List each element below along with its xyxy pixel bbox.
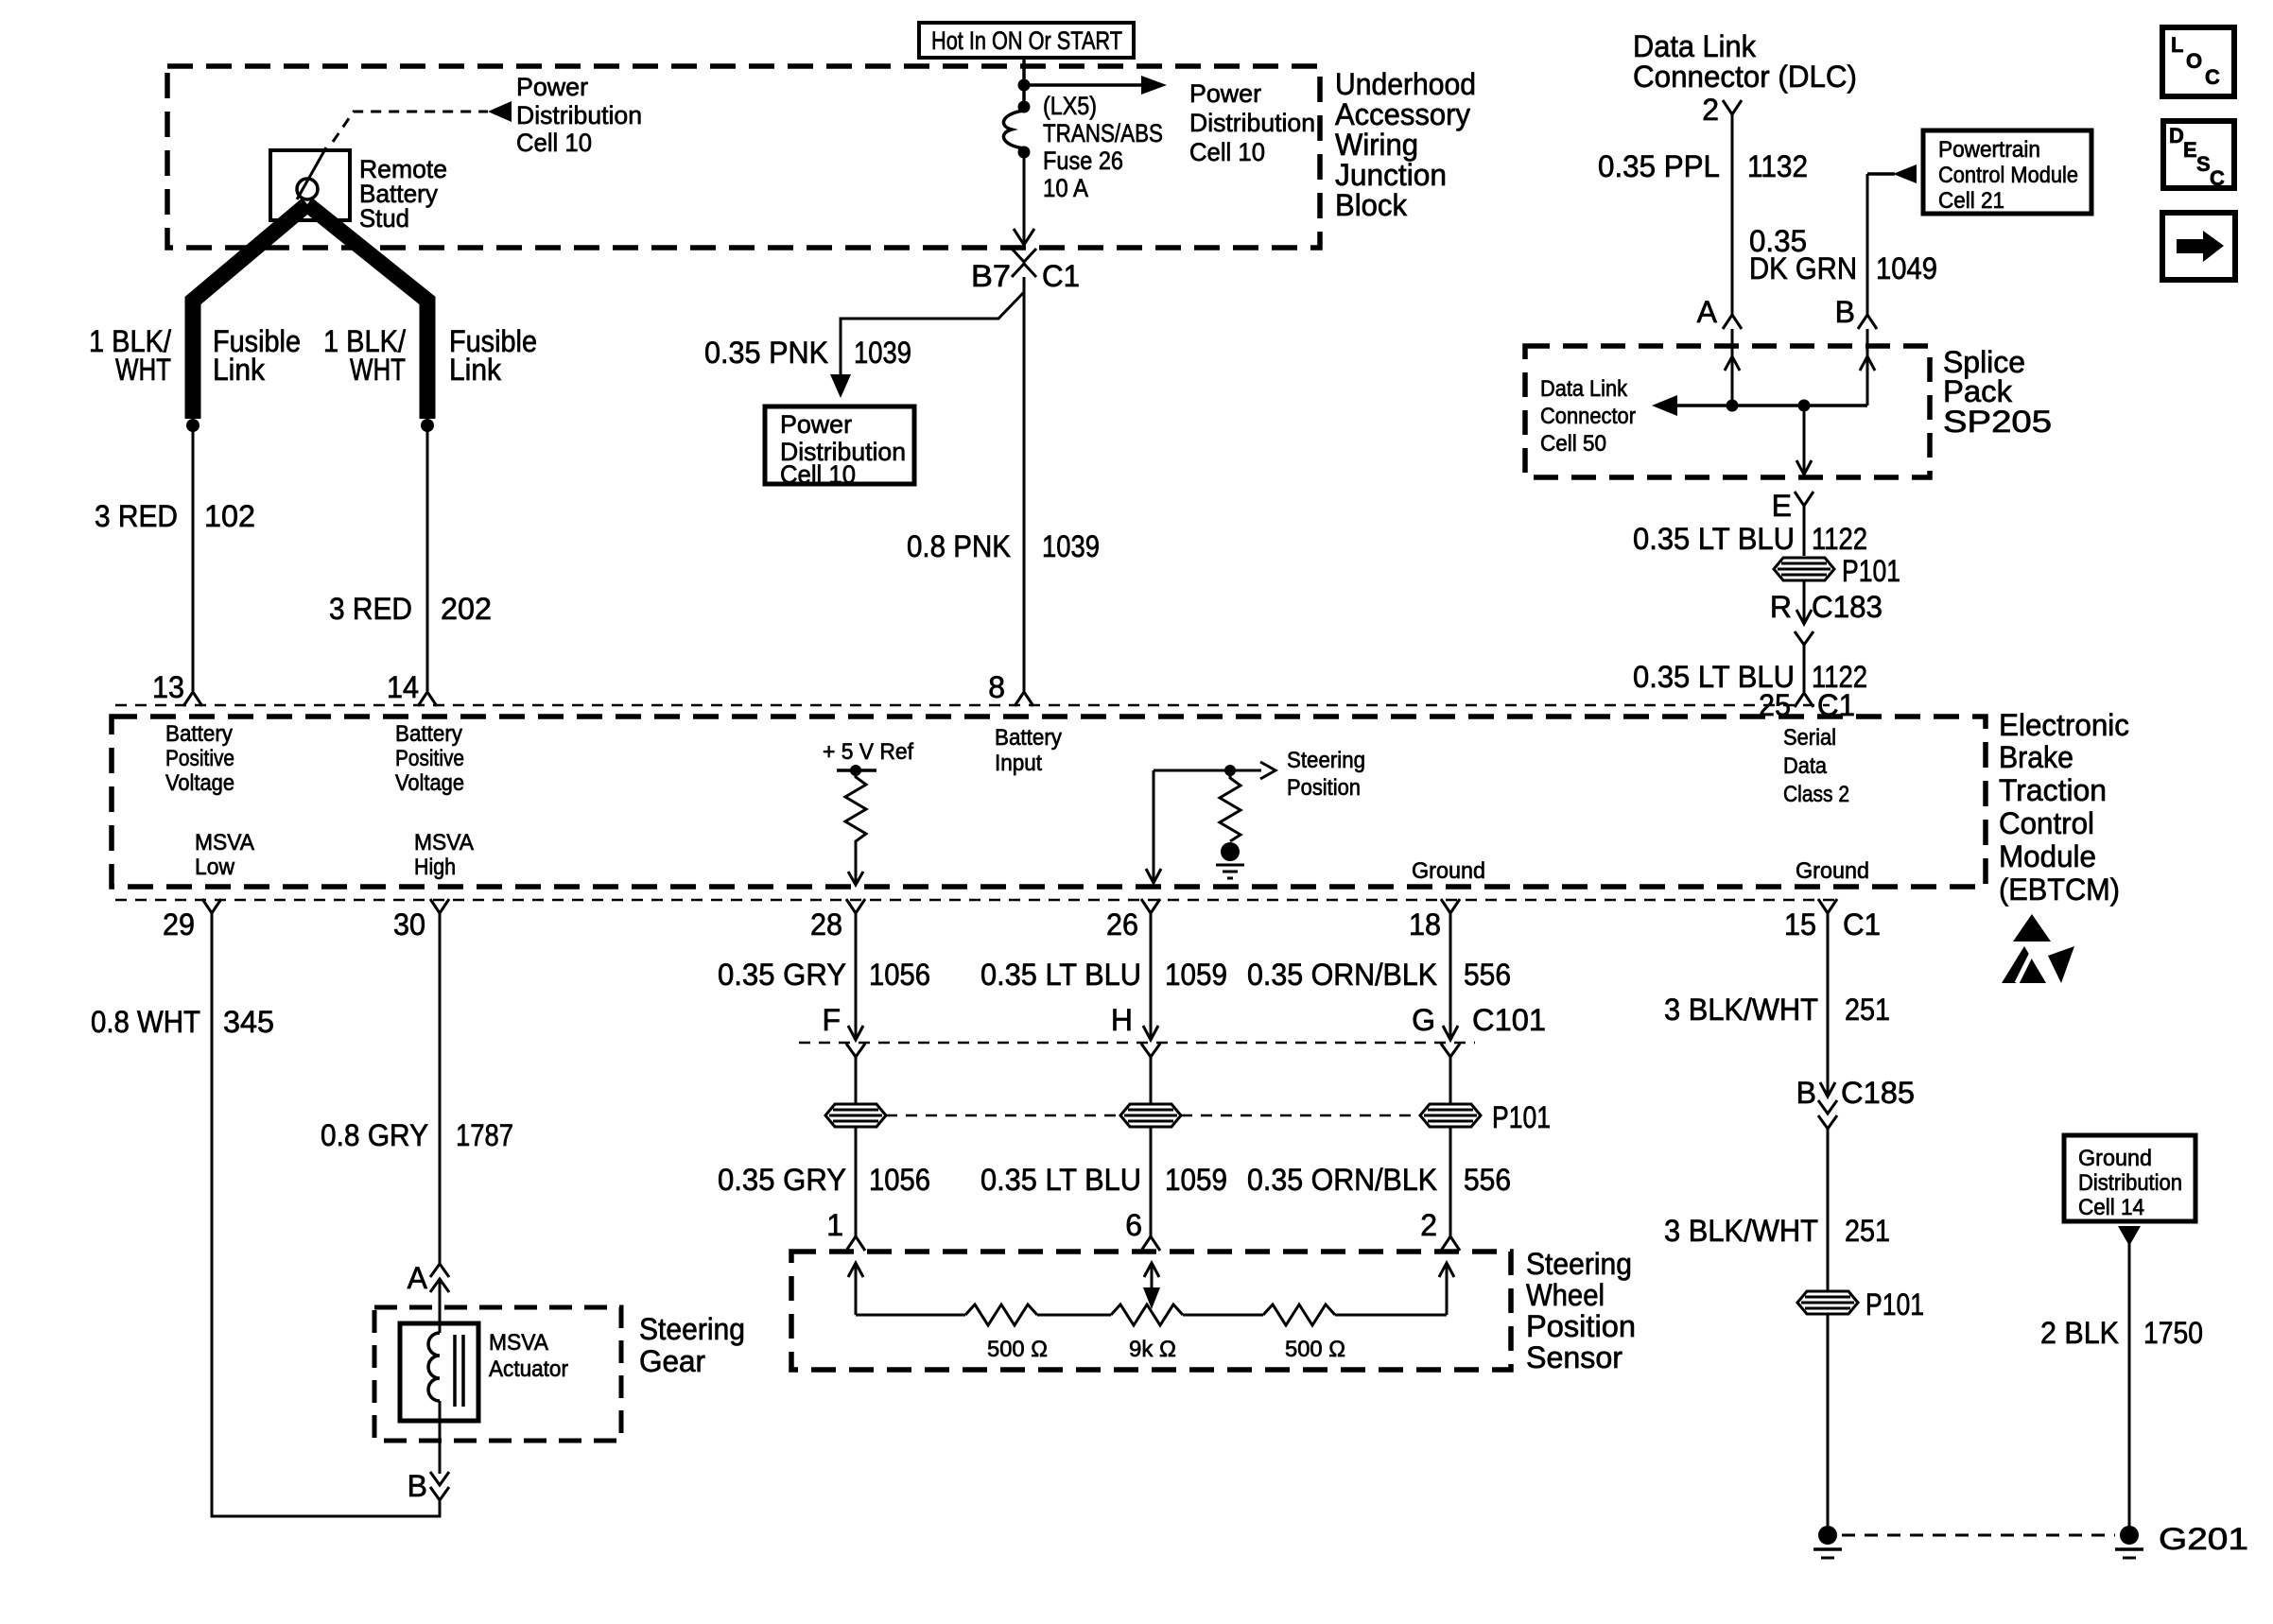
wire A into gear box (439, 1279, 442, 1323)
svg-text:B: B (408, 1469, 427, 1503)
dashed line P101 row (886, 1114, 1120, 1117)
sensor pin 1 (826, 1208, 865, 1251)
svg-text:3 RED: 3 RED (329, 592, 412, 626)
Power Distribution Cell 10 box (765, 406, 914, 489)
svg-text:1049: 1049 (1876, 251, 1937, 285)
svg-text:1750: 1750 (2143, 1316, 2203, 1350)
sensor pin 6 (1125, 1208, 1160, 1251)
wire 15 3 BLK/WHT 251 upper (1827, 913, 1830, 1095)
svg-text:0.8 PNK: 0.8 PNK (907, 529, 1011, 563)
chevron F (846, 1044, 865, 1057)
EBTCM steering position branch (1146, 748, 1365, 883)
svg-text:Wiring: Wiring (1335, 128, 1418, 162)
fusible link right thick (307, 204, 427, 419)
wire 15 3 BLK/WHT 251 lower (1827, 1129, 1830, 1528)
branch wire 0.35 PNK 1039 (704, 292, 1024, 398)
svg-text:202: 202 (441, 592, 492, 626)
svg-text:251: 251 (1845, 1214, 1890, 1248)
MSVA coil (428, 1323, 463, 1421)
svg-text:Power: Power (516, 73, 588, 101)
svg-text:Hot In ON Or START: Hot In ON Or START (931, 26, 1122, 55)
svg-text:Battery: Battery (995, 725, 1062, 751)
Hot In ON Or START tag box (919, 23, 1134, 58)
DESC reference box (2163, 121, 2234, 190)
svg-text:Cell 10: Cell 10 (516, 129, 592, 157)
svg-text:Actuator: Actuator (489, 1356, 568, 1382)
svg-text:Data Link: Data Link (1633, 29, 1757, 63)
svg-text:556: 556 (1464, 1163, 1511, 1197)
EBTCM dashed box (112, 717, 1986, 887)
sensor wire 2 up arrow (1439, 1263, 1454, 1315)
svg-text:0.35 LT BLU: 0.35 LT BLU (980, 1163, 1141, 1197)
svg-text:A: A (408, 1261, 428, 1295)
junction dot left (186, 419, 200, 432)
svg-text:C1: C1 (1843, 907, 1881, 942)
svg-text:1039: 1039 (854, 336, 911, 370)
sensor pin 2 (1420, 1208, 1460, 1251)
chevron H (1141, 1044, 1160, 1057)
svg-text:18: 18 (1409, 907, 1441, 942)
Steering Wheel Position Sensor dashed box (791, 1252, 1511, 1370)
svg-text:0.35 ORN/BLK: 0.35 ORN/BLK (1247, 958, 1437, 992)
svg-text:1056: 1056 (869, 958, 930, 992)
wire 0.35 DK GRN 1049 (1866, 174, 1869, 315)
svg-text:Ground: Ground (1412, 858, 1485, 884)
svg-text:H: H (1111, 1003, 1133, 1037)
svg-text:8: 8 (988, 670, 1005, 704)
P101 grommet H wire (1120, 1104, 1181, 1127)
svg-text:Position: Position (1287, 775, 1361, 801)
svg-text:1056: 1056 (869, 1163, 930, 1197)
svg-text:Data: Data (1783, 753, 1828, 779)
wire 14 vertical (426, 425, 429, 691)
P101 grommet F wire (825, 1104, 886, 1127)
svg-text:S: S (2196, 152, 2211, 176)
EBTCM text Battery Input (995, 725, 1062, 776)
pin 25 C1 (1759, 688, 1855, 722)
splice pack pin A (1697, 295, 1742, 329)
svg-text:251: 251 (1845, 993, 1890, 1027)
svg-text:P101: P101 (1842, 554, 1900, 588)
wire label 3 RED 102 (95, 499, 255, 533)
svg-text:Link: Link (213, 353, 266, 387)
svg-text:Steering: Steering (639, 1312, 745, 1346)
svg-text:A: A (1697, 295, 1718, 329)
svg-text:3 BLK/WHT: 3 BLK/WHT (1664, 1214, 1818, 1248)
EBTCM text Serial Data Class 2 (1783, 725, 1849, 807)
svg-text:Steering: Steering (1526, 1247, 1632, 1281)
wire H pin 26 upper (1150, 913, 1153, 1039)
svg-text:3 RED: 3 RED (95, 499, 178, 533)
pin 18 (1409, 899, 1460, 942)
svg-text:1787: 1787 (456, 1118, 513, 1152)
arrow to Power Distribution Cell 10 right (1024, 76, 1315, 166)
svg-text:Accessory: Accessory (1335, 97, 1470, 131)
wire labels row 2 (718, 1163, 1511, 1197)
svg-text:Cell 21: Cell 21 (1938, 188, 2004, 214)
svg-text:F: F (822, 1003, 841, 1037)
svg-text:MSVA: MSVA (414, 830, 474, 855)
wire 0.35 LT BLU 1122 lower (1803, 645, 1806, 692)
svg-text:Serial: Serial (1783, 725, 1836, 751)
labels fusible links (89, 324, 537, 387)
svg-text:0.35 GRY: 0.35 GRY (718, 1163, 846, 1197)
ground symbol wire 15 (1813, 1526, 1842, 1558)
svg-text:0.35 LT BLU: 0.35 LT BLU (980, 958, 1141, 992)
arrow below Ground Distribution box (2118, 1226, 2141, 1246)
fusible link left thick (193, 204, 307, 419)
EBTCM text MSVA High (414, 830, 474, 880)
svg-text:C183: C183 (1812, 590, 1883, 624)
wire fuse down to junction block edge (1023, 152, 1026, 245)
DLC pin 2 (1702, 93, 1742, 127)
svg-text:26: 26 (1106, 907, 1138, 942)
svg-text:High: High (414, 855, 456, 880)
wire 0.8 PNK down to pin 8 (1023, 277, 1026, 691)
svg-text:0.8 GRY: 0.8 GRY (321, 1118, 428, 1152)
svg-text:WHT: WHT (350, 353, 406, 387)
EBTCM text MSVA Low (195, 830, 254, 880)
C101 dashed line (799, 1042, 1475, 1045)
wire 0.35 LT BLU 1122 upper (1803, 506, 1806, 556)
P101 grommet E wire (1774, 554, 1900, 588)
pin 26 (1106, 899, 1160, 942)
arrow reference box (2162, 213, 2235, 280)
wire 0.35 PPL 1132 (1731, 114, 1734, 315)
svg-text:Junction: Junction (1335, 158, 1447, 192)
P101 grommet wire 15 (1797, 1287, 1924, 1322)
svg-text:1132: 1132 (1747, 149, 1808, 183)
splice text Data Link Connector Cell 50 (1540, 376, 1636, 457)
wire G pin 18 upper (1449, 913, 1452, 1039)
MSVA Actuator box (400, 1323, 568, 1421)
svg-text:9k Ω: 9k Ω (1129, 1337, 1176, 1362)
svg-text:L: L (2171, 33, 2183, 57)
svg-text:O: O (2186, 49, 2202, 73)
svg-text:Stud: Stud (359, 204, 409, 233)
svg-text:Connector (DLC): Connector (DLC) (1633, 60, 1857, 94)
svg-text:Distribution: Distribution (2078, 1170, 2182, 1196)
svg-text:Connector: Connector (1540, 404, 1636, 429)
Underhood Accessory Wiring Junction Block dashed box (167, 66, 1320, 248)
EBTCM text Battery Positive Voltage pin14 (395, 721, 464, 796)
svg-text:Electronic: Electronic (1999, 708, 2129, 742)
connector B7 C1 (971, 249, 1080, 293)
label Underhood Accessory Wiring Junction Block (1335, 67, 1476, 222)
wire B into bus (1860, 329, 1875, 406)
svg-text:1122: 1122 (1812, 660, 1867, 694)
svg-text:(LX5): (LX5) (1043, 92, 1097, 120)
svg-text:B: B (1835, 295, 1855, 329)
label Steering Gear (639, 1312, 745, 1378)
svg-text:0.35 LT BLU: 0.35 LT BLU (1633, 660, 1795, 694)
svg-text:29: 29 (163, 907, 195, 942)
pin 8 (988, 670, 1033, 706)
chevron G (1441, 1044, 1460, 1057)
ESD sensitive symbol (2002, 914, 2074, 983)
svg-text:G201: G201 (2159, 1522, 2248, 1556)
svg-text:2 BLK: 2 BLK (2040, 1316, 2119, 1350)
wire F pin 28 upper (855, 913, 858, 1039)
P101 grommet G wire (1420, 1100, 1551, 1134)
wire from Hot In box to fuse (1022, 58, 1026, 107)
svg-text:Control Module: Control Module (1938, 163, 2078, 188)
svg-text:Data Link: Data Link (1540, 376, 1628, 402)
connector A steering gear (408, 1261, 449, 1295)
pin 29 (163, 899, 221, 942)
svg-text:2: 2 (1420, 1208, 1437, 1242)
svg-text:WHT: WHT (115, 353, 171, 387)
label Steering Wheel Position Sensor (1526, 1247, 1636, 1374)
svg-text:D: D (2169, 124, 2184, 147)
pin 14 (387, 670, 437, 706)
wire label 0.8 PNK 1039 (907, 529, 1100, 563)
pin 13 (152, 670, 202, 706)
wire arrow to PCM (1867, 164, 1917, 183)
pin 30 (393, 899, 449, 942)
svg-text:Powertrain: Powertrain (1938, 137, 2040, 163)
svg-text:345: 345 (223, 1005, 274, 1039)
svg-text:Battery: Battery (165, 721, 233, 747)
svg-text:Control: Control (1999, 806, 2094, 840)
svg-text:Cell 14: Cell 14 (2078, 1195, 2144, 1220)
svg-text:+ 5 V Ref: + 5 V Ref (823, 739, 913, 765)
wire 13 vertical (192, 425, 195, 691)
svg-text:0.35 GRY: 0.35 GRY (718, 958, 846, 992)
LOC reference box (2162, 27, 2234, 96)
svg-text:C101: C101 (1472, 1003, 1546, 1037)
Powertrain Control Module Cell 21 box (1923, 130, 2091, 214)
svg-text:DK GRN: DK GRN (1749, 251, 1857, 285)
svg-text:P101: P101 (1492, 1100, 1551, 1134)
svg-text:C1: C1 (1042, 259, 1080, 293)
svg-text:Input: Input (995, 751, 1042, 776)
junction dot (1018, 79, 1031, 92)
svg-text:Sensor: Sensor (1526, 1340, 1622, 1374)
svg-text:Brake: Brake (1999, 740, 2073, 774)
wire 2 BLK 1750 (2128, 1243, 2131, 1528)
svg-text:Battery: Battery (395, 721, 462, 747)
svg-text:Steering: Steering (1287, 748, 1365, 773)
sensor wire 1 up arrow (848, 1263, 863, 1315)
wires to P101 row (855, 1057, 858, 1104)
svg-text:0.35 LT BLU: 0.35 LT BLU (1633, 522, 1795, 556)
EBTCM internal ground (1216, 842, 1244, 878)
label Data Link Connector DLC (1633, 29, 1857, 94)
fuse 26 TRANS/ABS (1003, 92, 1163, 202)
svg-text:Fuse 26: Fuse 26 (1043, 147, 1123, 175)
svg-text:1122: 1122 (1812, 522, 1867, 556)
splice pin E (1772, 489, 1813, 523)
Steering Gear dashed box (374, 1307, 621, 1441)
svg-text:Ground: Ground (2078, 1146, 2152, 1171)
svg-text:1: 1 (826, 1208, 843, 1242)
svg-text:Underhood: Underhood (1335, 67, 1476, 101)
connector dashed line top C1 (115, 704, 1830, 707)
svg-text:Pack: Pack (1943, 374, 2013, 408)
splice E stem junction (1796, 400, 1812, 475)
connector B steering gear (408, 1469, 449, 1503)
svg-text:Cell 10: Cell 10 (1189, 138, 1265, 166)
svg-text:MSVA: MSVA (489, 1330, 548, 1356)
svg-text:R: R (1770, 590, 1792, 624)
svg-text:TRANS/ABS: TRANS/ABS (1043, 119, 1163, 147)
dashed link to G201 (1842, 1534, 2115, 1537)
splice bus with left arrow (1652, 395, 1867, 416)
svg-text:500 Ω: 500 Ω (987, 1337, 1048, 1362)
svg-text:Ground: Ground (1796, 858, 1869, 884)
svg-text:Distribution: Distribution (516, 101, 642, 130)
ground G201 (2115, 1522, 2248, 1558)
svg-text:14: 14 (387, 670, 419, 704)
svg-text:Positive: Positive (395, 746, 464, 771)
Splice Pack SP205 dashed box (1525, 346, 1930, 477)
svg-text:1059: 1059 (1165, 958, 1227, 992)
svg-text:Position: Position (1526, 1309, 1636, 1343)
svg-text:C: C (2205, 65, 2220, 89)
wire labels row 1 (718, 958, 1511, 992)
wire 30 0.8 GRY 1787 (439, 913, 442, 1265)
svg-text:Low: Low (195, 855, 235, 880)
svg-text:Module: Module (1999, 839, 2096, 873)
svg-text:P101: P101 (1865, 1287, 1924, 1322)
svg-text:102: 102 (204, 499, 255, 533)
svg-text:15: 15 (1784, 907, 1816, 942)
svg-text:30: 30 (393, 907, 425, 942)
svg-text:Positive: Positive (165, 746, 234, 771)
svg-text:10 A: 10 A (1043, 174, 1088, 202)
svg-text:500 Ω: 500 Ω (1285, 1337, 1345, 1362)
resistor chain (856, 1304, 1447, 1325)
Ground Distribution Cell 14 box (2064, 1135, 2195, 1221)
svg-text:Class 2: Class 2 (1783, 782, 1849, 807)
EBTCM 5V Ref resistor (823, 739, 913, 885)
svg-text:Distribution: Distribution (1189, 109, 1315, 137)
svg-text:3 BLK/WHT: 3 BLK/WHT (1664, 993, 1818, 1027)
pin 15 C1 (1784, 899, 1881, 942)
Remote Battery Stud box (270, 147, 447, 233)
wire below MSVA (439, 1421, 442, 1474)
svg-text:Cell 10: Cell 10 (780, 460, 856, 489)
svg-text:0.35 PNK: 0.35 PNK (704, 336, 828, 370)
svg-text:6: 6 (1125, 1208, 1142, 1242)
svg-text:2: 2 (1702, 93, 1719, 127)
svg-text:28: 28 (810, 907, 842, 942)
svg-text:Wheel: Wheel (1526, 1278, 1605, 1312)
connector R C183 (1770, 580, 1883, 645)
svg-text:MSVA: MSVA (195, 830, 254, 855)
dashed pointer to Power Distribution Cell 10 (333, 73, 642, 157)
svg-text:C185: C185 (1841, 1076, 1915, 1110)
svg-text:Power: Power (1189, 79, 1261, 108)
svg-text:SP205: SP205 (1943, 405, 2052, 439)
wire label 3 RED 202 (329, 592, 492, 626)
svg-text:Block: Block (1335, 188, 1408, 222)
svg-text:Gear: Gear (639, 1344, 705, 1378)
pin 28 (810, 899, 865, 942)
wires below P101 row (855, 1127, 858, 1236)
svg-text:0.35 PPL: 0.35 PPL (1598, 149, 1720, 183)
svg-text:0.8 WHT: 0.8 WHT (91, 1005, 200, 1039)
svg-text:E: E (1772, 489, 1792, 523)
svg-text:B: B (1796, 1076, 1816, 1110)
connector B C185 (1796, 1076, 1915, 1129)
svg-text:Power: Power (780, 410, 852, 439)
svg-text:13: 13 (152, 670, 184, 704)
svg-text:Cell 50: Cell 50 (1540, 431, 1606, 457)
svg-text:Voltage: Voltage (395, 770, 464, 796)
connector C101 letters (822, 1003, 1546, 1040)
svg-text:B7: B7 (971, 259, 1011, 293)
svg-text:C: C (2210, 166, 2225, 190)
svg-text:(EBTCM): (EBTCM) (1999, 872, 2120, 907)
wire 29 label 0.8 WHT 345 (91, 1005, 274, 1039)
label Splice Pack SP205 (1943, 345, 2052, 439)
svg-text:556: 556 (1464, 958, 1511, 992)
wire B loop to wire 29 (212, 913, 440, 1516)
svg-text:Link: Link (449, 353, 502, 387)
EBTCM text Battery Positive Voltage pin13 (165, 721, 234, 796)
connector dashed line bottom C1 (115, 899, 1839, 902)
svg-text:Traction: Traction (1999, 773, 2107, 807)
junction dot right (421, 419, 434, 432)
label Electronic Brake Traction Control Module EBTCM (1999, 708, 2129, 907)
svg-text:0.35 ORN/BLK: 0.35 ORN/BLK (1247, 1163, 1437, 1197)
splice pack pin B (1835, 295, 1877, 329)
svg-text:G: G (1412, 1003, 1435, 1037)
svg-text:1039: 1039 (1042, 529, 1100, 563)
svg-text:1059: 1059 (1165, 1163, 1227, 1197)
svg-text:E: E (2183, 138, 2197, 162)
sensor wiper double arrow (1143, 1263, 1160, 1309)
wire A into bus (1725, 329, 1740, 412)
svg-text:Voltage: Voltage (165, 770, 234, 796)
